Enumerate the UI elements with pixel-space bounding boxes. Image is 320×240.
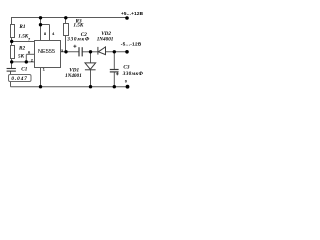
node R1/R2/pin7 bbox=[10, 40, 13, 43]
wire VD1 to ground rail bbox=[90, 70, 92, 87]
wire pin6 horizontal bbox=[26, 53, 34, 55]
resistor R3 bbox=[64, 24, 69, 36]
node pin6/pin2 bbox=[25, 60, 28, 63]
svg-text:+5...+12В: +5...+12В bbox=[121, 11, 144, 16]
wire pin3 output to C2 bbox=[61, 51, 80, 53]
resistor R1 bbox=[11, 25, 15, 38]
svg-text:4: 4 bbox=[52, 31, 55, 36]
svg-text:1N4001: 1N4001 bbox=[65, 73, 82, 79]
wire R3 drop from rail bbox=[65, 18, 67, 24]
node R2/C1/pin2 bbox=[10, 60, 13, 63]
svg-text:1.5K: 1.5K bbox=[73, 23, 83, 29]
wire pin8 vertical from rail to IC bbox=[40, 18, 42, 41]
wire R1 to R2 bbox=[11, 38, 13, 46]
svg-text:0.047: 0.047 bbox=[11, 76, 27, 82]
node +V rail / pin8 bbox=[39, 16, 42, 19]
terminal +V bbox=[125, 16, 129, 20]
wire pin4 vertical bbox=[49, 25, 51, 41]
node pin8/pin4 branch bbox=[39, 23, 42, 26]
C2 polarity plus bbox=[73, 45, 76, 48]
node VD2 out / C3 bbox=[113, 50, 116, 53]
capacitor C1 plates bbox=[7, 69, 16, 72]
node ground rail / C3 bbox=[113, 85, 116, 88]
svg-text:330мкФ: 330мкФ bbox=[122, 71, 144, 77]
terminal common 0V bbox=[126, 85, 130, 89]
svg-text:7: 7 bbox=[28, 37, 31, 42]
wire bottom ground rail bbox=[11, 86, 128, 88]
svg-text:0: 0 bbox=[125, 79, 128, 84]
node +V rail / R3 bbox=[64, 16, 67, 19]
svg-text:330мкФ: 330мкФ bbox=[66, 37, 90, 43]
value box for C1 0.047 bbox=[9, 75, 32, 82]
svg-text:-5...-12В: -5...-12В bbox=[121, 42, 142, 47]
wire pin7 horizontal bbox=[12, 41, 35, 43]
svg-text:1N4001: 1N4001 bbox=[97, 37, 114, 43]
wire C3 to ground rail bbox=[113, 72, 115, 87]
op-amp/timer U1 NE555 box bbox=[35, 41, 61, 68]
wire C3 drop bbox=[113, 52, 115, 70]
svg-text:C1: C1 bbox=[21, 67, 27, 73]
svg-text:3: 3 bbox=[61, 48, 64, 53]
node pin3/R3 bbox=[64, 50, 67, 53]
svg-text:8: 8 bbox=[44, 31, 47, 36]
wire pin6 vertical bbox=[25, 54, 27, 62]
wire C2 to VD2 bbox=[82, 51, 98, 53]
diode VD1 (vertical, pointing down) bbox=[85, 63, 96, 70]
node C2/VD1/VD2 bbox=[89, 50, 92, 53]
capacitor C3 plates bbox=[110, 70, 119, 72]
svg-text:R1: R1 bbox=[19, 24, 25, 30]
svg-text:5K: 5K bbox=[18, 53, 25, 59]
node ground rail / VD1 bbox=[89, 85, 92, 88]
diode VD2 (horizontal, pointing left) bbox=[98, 47, 106, 55]
wire pin4 branch horizontal bbox=[41, 24, 50, 26]
wire pin2 horizontal bbox=[12, 61, 35, 63]
svg-text:C3: C3 bbox=[123, 65, 129, 71]
wire VD2 to -V terminal bbox=[106, 51, 128, 53]
wire R2 to C1 bbox=[11, 59, 13, 69]
svg-text:NE555: NE555 bbox=[38, 49, 55, 55]
wire top +V rail bbox=[12, 18, 128, 25]
svg-text:R2: R2 bbox=[19, 45, 25, 51]
node ground rail / pin1 bbox=[39, 85, 42, 88]
resistor R2 bbox=[11, 46, 15, 59]
wire IC pin1 ground vertical bbox=[40, 68, 42, 87]
wire R3 to pin3 node bbox=[65, 36, 67, 52]
wire C1 down to ground rail bbox=[10, 71, 12, 87]
capacitor C2 plates bbox=[79, 47, 82, 56]
wire VD1 drop bbox=[90, 52, 92, 63]
C3 polarity plus bbox=[116, 73, 119, 76]
terminal -V output bbox=[125, 50, 129, 54]
